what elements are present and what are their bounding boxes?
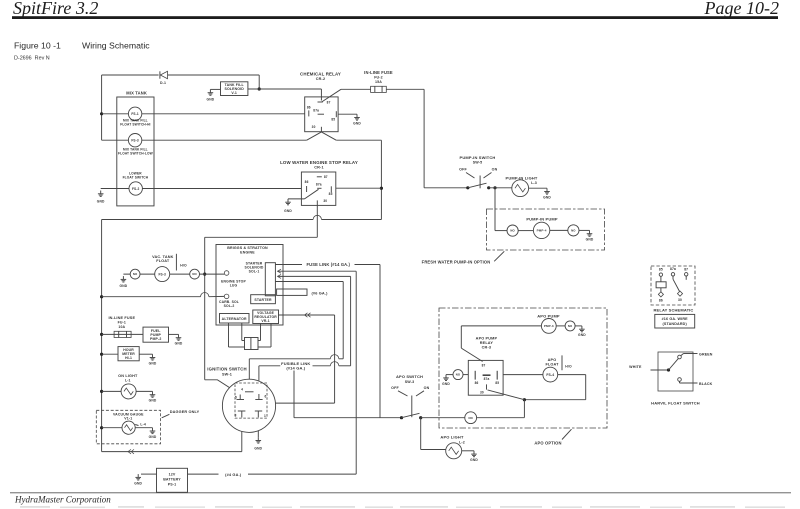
svg-text:NO: NO: [571, 229, 576, 233]
svg-text:APO PUMP: APO PUMP: [537, 313, 560, 318]
svg-text:GND: GND: [120, 284, 128, 288]
svg-text:30: 30: [323, 199, 327, 203]
svg-text:FS-2: FS-2: [132, 187, 140, 191]
svg-text:PS-1: PS-1: [168, 483, 177, 487]
svg-text:APO: APO: [548, 358, 557, 362]
svg-text:LUG: LUG: [230, 284, 238, 288]
svg-text:GND: GND: [470, 458, 478, 462]
svg-text:(#4 GA.): (#4 GA.): [225, 472, 242, 477]
svg-text:FLOAT SWITCH-HI: FLOAT SWITCH-HI: [120, 123, 150, 127]
svg-text:STARTER: STARTER: [254, 298, 272, 302]
svg-text:MIX TANK: MIX TANK: [126, 90, 147, 95]
svg-text:CHEMICAL RELAY: CHEMICAL RELAY: [300, 71, 341, 76]
svg-text:SW-3: SW-3: [405, 380, 415, 384]
svg-text:FU-1: FU-1: [118, 321, 126, 325]
svg-text:V-1: V-1: [231, 91, 237, 95]
svg-text:APO PUMP: APO PUMP: [476, 337, 498, 341]
svg-text:PMP-2: PMP-2: [150, 337, 161, 341]
svg-text:HI-1: HI-1: [125, 356, 132, 360]
svg-text:GND: GND: [175, 342, 183, 346]
svg-text:FS-4: FS-4: [546, 373, 554, 377]
svg-text:87a: 87a: [313, 109, 319, 113]
svg-text:6: 6: [265, 395, 267, 399]
svg-text:RELAY: RELAY: [480, 341, 494, 345]
svg-text:5: 5: [235, 395, 237, 399]
svg-text:12V: 12V: [169, 472, 176, 476]
svg-text:L-4: L-4: [140, 423, 146, 427]
svg-text:GND: GND: [254, 446, 262, 450]
svg-text:#16 GA. WIRE: #16 GA. WIRE: [662, 317, 689, 321]
svg-text:PUMP-IN PUMP: PUMP-IN PUMP: [526, 216, 558, 221]
svg-text:D-1: D-1: [160, 81, 166, 85]
svg-text:ON: ON: [492, 167, 498, 171]
svg-text:NO: NO: [510, 229, 515, 233]
svg-text:RELAY SCHEMATIC: RELAY SCHEMATIC: [654, 307, 694, 312]
svg-text:ALTERNATOR: ALTERNATOR: [222, 317, 247, 321]
svg-text:CR-1: CR-1: [314, 166, 323, 170]
svg-text:SOL-1: SOL-1: [249, 269, 260, 273]
svg-text:IGNITION SWITCH: IGNITION SWITCH: [207, 367, 247, 372]
svg-text:FRESH WATER PUMP-IN OPTION: FRESH WATER PUMP-IN OPTION: [422, 259, 491, 264]
svg-text:(#14 GA.): (#14 GA.): [286, 366, 305, 371]
svg-text:Page 10-2: Page 10-2: [704, 0, 779, 18]
svg-text:30: 30: [678, 298, 682, 302]
svg-text:FUSE LINK (#14 GA.): FUSE LINK (#14 GA.): [307, 262, 351, 267]
svg-text:ENGINE: ENGINE: [240, 250, 255, 254]
svg-text:87: 87: [327, 100, 331, 104]
svg-text:H/O: H/O: [180, 264, 187, 268]
svg-text:OFF: OFF: [391, 386, 399, 390]
svg-text:WHITE: WHITE: [629, 365, 642, 369]
svg-text:GND: GND: [284, 209, 292, 213]
svg-text:VR-1: VR-1: [261, 319, 269, 323]
svg-text:GND: GND: [97, 200, 105, 204]
svg-text:30: 30: [312, 125, 316, 129]
svg-text:SpitFire 3.2: SpitFire 3.2: [13, 0, 98, 18]
svg-text:85: 85: [331, 117, 335, 121]
svg-text:10A: 10A: [118, 325, 125, 329]
svg-text:L-3: L-3: [531, 181, 537, 185]
svg-text:FLOAT SWITCH-LOW: FLOAT SWITCH-LOW: [118, 152, 153, 156]
svg-text:GND: GND: [207, 98, 215, 102]
svg-text:FS-3: FS-3: [131, 139, 139, 143]
svg-text:GND: GND: [149, 435, 157, 439]
svg-text:HydraMaster Corporation: HydraMaster Corporation: [14, 495, 111, 505]
svg-text:87a: 87a: [484, 377, 490, 381]
svg-text:GND: GND: [149, 361, 157, 365]
svg-text:Wiring Schematic: Wiring Schematic: [82, 41, 150, 51]
svg-text:LOW WATER ENGINE STOP RELAY: LOW WATER ENGINE STOP RELAY: [280, 160, 358, 165]
svg-text:L-1: L-1: [125, 379, 131, 383]
svg-text:86: 86: [659, 298, 663, 302]
svg-text:FLOAT SWITCH: FLOAT SWITCH: [123, 176, 149, 180]
svg-text:V1-1: V1-1: [124, 417, 132, 421]
svg-text:1: 1: [264, 414, 266, 418]
svg-text:GND: GND: [149, 399, 157, 403]
svg-text:ON LIGHT: ON LIGHT: [118, 374, 138, 378]
svg-text:D-2696 Rev N: D-2696 Rev N: [14, 56, 50, 62]
svg-text:87: 87: [684, 268, 688, 272]
svg-text:PMP-3: PMP-3: [544, 324, 554, 328]
svg-text:PMP-4: PMP-4: [537, 229, 547, 233]
svg-text:SOL-2: SOL-2: [224, 304, 235, 308]
svg-text:IN-LINE FUSE: IN-LINE FUSE: [108, 316, 135, 320]
svg-text:NO: NO: [133, 272, 138, 276]
svg-text:APO LIGHT: APO LIGHT: [440, 434, 464, 439]
svg-text:85: 85: [329, 192, 333, 196]
svg-text:GND: GND: [353, 121, 361, 125]
svg-text:NO: NO: [456, 373, 461, 377]
svg-text:30: 30: [480, 390, 484, 394]
svg-text:86: 86: [305, 180, 309, 184]
svg-text:BLACK: BLACK: [699, 382, 713, 386]
svg-text:3: 3: [235, 414, 237, 418]
svg-text:HARVIL FLOAT SWITCH: HARVIL FLOAT SWITCH: [651, 401, 700, 406]
svg-text:GREEN: GREEN: [699, 352, 713, 356]
svg-text:SW-5: SW-5: [473, 160, 483, 164]
svg-text:(#6 GA.): (#6 GA.): [311, 290, 328, 295]
svg-text:85: 85: [495, 381, 499, 385]
svg-text:CR-3: CR-3: [482, 345, 491, 349]
svg-text:L-2: L-2: [459, 441, 465, 445]
svg-text:H/O: H/O: [565, 365, 572, 369]
svg-text:87: 87: [482, 363, 486, 367]
svg-text:CR-2: CR-2: [316, 77, 325, 81]
svg-text:ON: ON: [424, 386, 430, 390]
svg-text:GND: GND: [134, 481, 142, 485]
svg-text:GND: GND: [586, 238, 594, 242]
svg-text:FLOAT: FLOAT: [545, 362, 559, 366]
svg-text:NO: NO: [468, 416, 473, 420]
svg-text:15A: 15A: [375, 80, 382, 84]
svg-text:APO SWITCH: APO SWITCH: [396, 374, 423, 379]
svg-text:FS-1: FS-1: [131, 112, 139, 116]
svg-text:APO OPTION: APO OPTION: [534, 441, 561, 446]
svg-text:87a: 87a: [316, 183, 322, 187]
svg-text:4: 4: [241, 388, 243, 392]
svg-text:GND: GND: [442, 382, 450, 386]
svg-text:OFF: OFF: [459, 167, 467, 171]
svg-text:87: 87: [324, 175, 328, 179]
svg-text:IN-LINE FUSE: IN-LINE FUSE: [364, 70, 393, 75]
svg-text:FU-2: FU-2: [374, 76, 383, 80]
svg-text:NO: NO: [568, 324, 573, 328]
svg-text:(STANDARD): (STANDARD): [663, 322, 688, 326]
svg-text:FS-3: FS-3: [158, 272, 166, 276]
svg-text:Figure 10 -1: Figure 10 -1: [14, 41, 61, 51]
svg-text:FLOAT: FLOAT: [156, 259, 170, 263]
svg-text:SW-1: SW-1: [222, 372, 232, 376]
svg-text:85: 85: [659, 268, 663, 272]
svg-text:DAGGER ONLY: DAGGER ONLY: [170, 410, 200, 414]
svg-text:BATTERY: BATTERY: [163, 478, 181, 482]
svg-text:NO: NO: [192, 272, 197, 276]
svg-text:87a: 87a: [670, 267, 676, 271]
svg-text:GND: GND: [543, 195, 551, 199]
svg-text:86: 86: [307, 106, 311, 110]
svg-text:PUMP-IN SWITCH: PUMP-IN SWITCH: [460, 155, 496, 160]
svg-text:GND: GND: [578, 333, 586, 337]
svg-text:86: 86: [475, 381, 479, 385]
